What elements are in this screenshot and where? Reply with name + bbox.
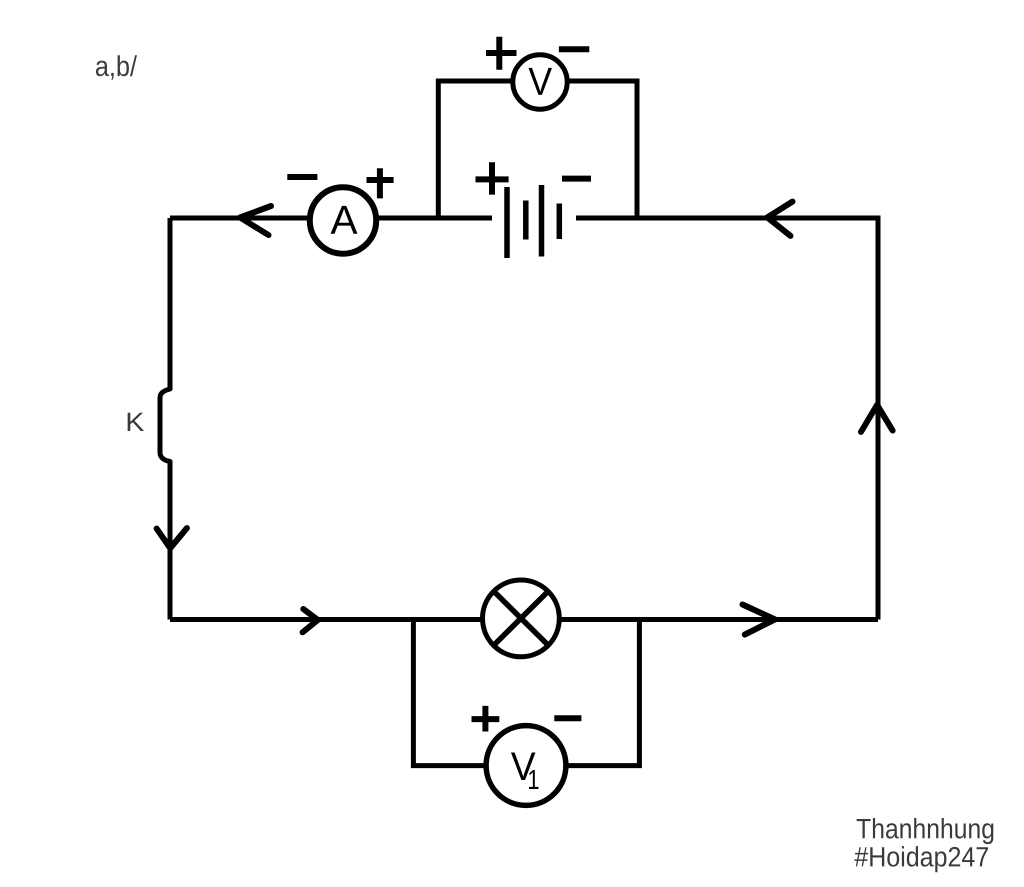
voltmeter V1 plus label [472,706,500,732]
ammeter A1 minus label [287,174,317,180]
wire top-middle segment [377,216,492,221]
wire left upper segment [168,218,173,390]
current arrow (up) on right wire [861,405,893,432]
current arrow (right) on bottom-left wire [303,609,318,632]
ammeter A1 plus label [367,168,394,198]
wire top-left segment [170,216,310,221]
voltmeter V minus label [559,46,589,52]
voltmeter V loop left wire [438,81,512,218]
switch K label [128,413,144,431]
wire left lower segment [168,461,173,620]
label a,b/ [96,55,137,79]
signature #Hoidap247 [854,846,988,872]
wire bottom-left segment [170,617,482,622]
voltmeter V1 [486,726,566,806]
battery short plate 2 [557,204,563,240]
voltmeter V plus label [486,37,517,70]
current arrow (down) on left wire [157,528,187,548]
wire bottom-right segment [560,617,879,622]
current arrow (right) on bottom-right wire [743,605,775,635]
battery long plate 1 [504,187,510,258]
current arrow (left) on top-left wire [240,206,271,235]
lamp X cross [493,591,549,646]
battery plus label [476,162,509,194]
signature Thanhnhung [857,818,994,844]
wire top-right + right side [576,218,878,620]
current arrow (left) on top-right wire [767,202,792,236]
switch K [160,389,170,462]
battery long plate 2 [539,185,545,257]
voltmeter V [513,55,567,109]
lamp L [483,580,560,657]
voltmeter V loop right wire [568,81,637,218]
battery minus label [562,176,591,182]
battery short plate 1 [523,201,529,240]
voltmeter V1 loop right wire [567,620,640,766]
ammeter A1 [310,187,376,253]
voltmeter V1 minus label [554,715,581,721]
voltmeter V1 loop left wire [413,620,485,766]
